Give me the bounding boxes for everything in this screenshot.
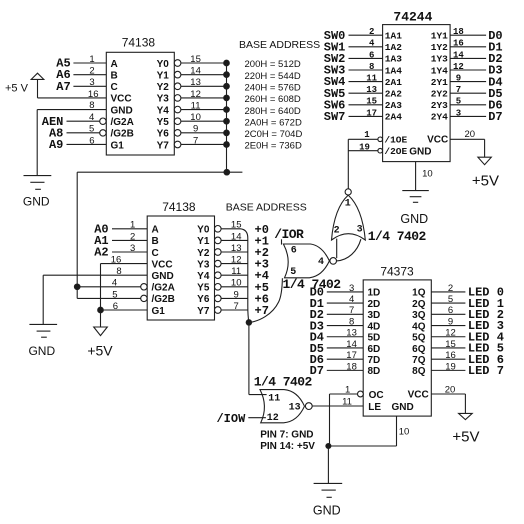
svg-text:12: 12 [267, 413, 279, 424]
svg-text:B: B [111, 70, 118, 81]
svg-text:11: 11 [268, 393, 280, 404]
svg-text:+5V: +5V [452, 428, 479, 445]
wire A0 to U2 pin 1 [94, 220, 147, 237]
svg-text:C: C [152, 248, 159, 259]
svg-text:3Q: 3Q [412, 310, 426, 321]
ground symbol GND (U1) [23, 176, 51, 209]
svg-text:3: 3 [130, 243, 135, 254]
svg-text:3: 3 [357, 225, 363, 236]
wire D7 to U4 pin 18 [310, 361, 364, 378]
svg-text:14: 14 [190, 66, 201, 77]
svg-text:6: 6 [448, 305, 453, 316]
wire select bus to U2 enables horizontal [77, 171, 242, 173]
svg-text:A: A [152, 225, 159, 236]
svg-text:8Q: 8Q [412, 366, 426, 377]
svg-text:16: 16 [111, 255, 122, 266]
wire A6 to U1 pin 2 [56, 66, 106, 83]
svg-text:2: 2 [130, 231, 135, 242]
IC U1 74138 address decoder (high) body [106, 36, 174, 156]
svg-text:13: 13 [190, 77, 201, 88]
wire U1 output Y6 pin 9 to select bus [174, 124, 229, 136]
wire D2 to U4 pin 7 [310, 305, 364, 322]
wire /IOW to U5C pin 12 [216, 412, 265, 426]
svg-text:10: 10 [231, 278, 242, 289]
svg-text:D7: D7 [310, 364, 324, 378]
wire U3 pin 5 to D6 [450, 97, 503, 113]
label PIN 14: +5V [260, 441, 315, 452]
svg-text:GND: GND [400, 212, 428, 226]
svg-text:11: 11 [366, 74, 377, 84]
svg-text:11: 11 [342, 396, 352, 407]
power +5V arrow to U4 pin 20 VCC [431, 384, 479, 445]
wire U1 output Y7 pin 7 to select bus [174, 135, 229, 147]
svg-text:74373: 74373 [380, 264, 414, 278]
svg-text:13: 13 [366, 85, 377, 95]
wire U2 output Y7 pin 7 (+7 select) [215, 301, 249, 313]
svg-text:13: 13 [289, 403, 301, 414]
svg-text:2: 2 [89, 66, 94, 77]
svg-text:GND: GND [23, 195, 50, 209]
svg-text:9: 9 [193, 124, 198, 135]
label pin 11 LE [342, 396, 352, 407]
wire A5 to U1 pin 1 [56, 54, 106, 71]
svg-text:Y0: Y0 [157, 59, 170, 70]
wire U3 pin 16 to D1 [450, 39, 503, 55]
svg-text:BASE ADDRESS: BASE ADDRESS [239, 39, 320, 51]
svg-text:GND: GND [313, 503, 341, 517]
svg-text:8D: 8D [368, 366, 381, 377]
wire U4 pin 6 to LED 2 [431, 305, 504, 322]
wire SW4 to U3 pin 11 [324, 74, 383, 90]
svg-text:/G2A: /G2A [152, 283, 175, 294]
svg-text:/1OE: /1OE [384, 135, 407, 146]
svg-text:280H = 640D: 280H = 640D [245, 106, 301, 117]
label address 260H = 608D [245, 94, 301, 105]
wire U1 output Y5 pin 10 to select bus [174, 112, 229, 124]
svg-text:9: 9 [456, 74, 461, 84]
gate U5C 1/4 7402 NOR /IOW latch enable pins 11 12 output 13 [260, 390, 312, 424]
ground symbol GND (U2 pin 8) [28, 266, 147, 358]
svg-text:9: 9 [448, 316, 453, 327]
svg-text:13: 13 [231, 243, 242, 254]
svg-text:10: 10 [399, 426, 410, 437]
label offset +7 [255, 304, 269, 318]
svg-text:GND: GND [111, 105, 133, 116]
wire U3 pin 14 to D2 [450, 50, 503, 66]
svg-text:Y7: Y7 [157, 140, 170, 151]
svg-text:2Q: 2Q [412, 299, 426, 310]
label offset +3 [255, 258, 269, 272]
wire U2 output Y0 pin 15 (+0 select) [215, 220, 242, 232]
svg-text:1: 1 [130, 220, 135, 231]
svg-text:G1: G1 [111, 140, 125, 151]
svg-text:2: 2 [369, 27, 374, 37]
wire SW5 to U3 pin 13 [324, 85, 383, 101]
svg-text:1A4: 1A4 [385, 65, 402, 76]
label 1/4 7402 (U5C) [254, 374, 313, 389]
svg-text:240H = 576D: 240H = 576D [245, 82, 301, 93]
wire U3 pin 1 /1OE enable [348, 130, 382, 142]
svg-text:12: 12 [453, 62, 464, 72]
svg-text:PIN 14: +5V: PIN 14: +5V [260, 441, 315, 452]
wire A7 to U1 pin 3 [56, 77, 106, 94]
gate U5A 1/4 7402 NOR (vertical) pins 2 3 output 1 [332, 189, 366, 240]
power +5V arrow to U2 pin 16 VCC and pin 6 G1 [87, 255, 147, 359]
wire U2 output Y6 pin 9 (+6 select) [215, 289, 249, 301]
wire SW1 to U3 pin 4 [324, 39, 383, 55]
wire D1 to U4 pin 4 [310, 294, 364, 311]
svg-text:6: 6 [291, 246, 297, 257]
wire U1 output Y4 pin 11 to select bus [174, 100, 229, 112]
svg-text:5: 5 [89, 124, 94, 135]
svg-text:74138: 74138 [162, 200, 196, 214]
wire D5 to U4 pin 14 [310, 339, 364, 356]
svg-text:1/4 7402: 1/4 7402 [254, 374, 313, 389]
svg-text:14: 14 [231, 231, 242, 242]
wire SW3 to U3 pin 8 [324, 62, 383, 78]
svg-text:6: 6 [113, 301, 118, 312]
svg-text:1: 1 [364, 130, 370, 140]
svg-text:5: 5 [112, 289, 117, 300]
power +5V arrow to U3 pin 20 VCC [450, 129, 499, 190]
svg-text:+5V: +5V [472, 173, 499, 190]
wire U3 pin 18 to D0 [450, 27, 503, 43]
svg-text:/2OE: /2OE [384, 146, 407, 157]
svg-text:D7: D7 [488, 110, 502, 124]
svg-text:1Q: 1Q [412, 288, 426, 299]
svg-text:4: 4 [89, 112, 94, 123]
svg-text:Y5: Y5 [157, 117, 170, 128]
wire U1 output Y1 pin 14 to select bus [174, 66, 229, 78]
wire U2 output Y2 pin 13 (+2 select) [215, 243, 249, 255]
wire D4 to U4 pin 13 [310, 328, 364, 345]
svg-text:2Y2: 2Y2 [431, 89, 448, 100]
ground symbol GND (U3 pin 10) [400, 162, 432, 226]
wire A1 to U2 pin 2 [94, 231, 147, 248]
svg-text:11: 11 [231, 266, 241, 277]
svg-text:3: 3 [89, 77, 94, 88]
wire SW7 to U3 pin 17 [324, 108, 383, 124]
svg-text:1Y4: 1Y4 [431, 65, 448, 76]
label address 2C0H = 704D [245, 129, 303, 140]
svg-text:2: 2 [448, 283, 453, 294]
svg-text:4Q: 4Q [412, 321, 426, 332]
svg-text:16: 16 [88, 89, 99, 100]
svg-text:1Y3: 1Y3 [431, 54, 448, 65]
svg-text:260H = 608D: 260H = 608D [245, 94, 301, 105]
svg-text:1: 1 [345, 199, 351, 210]
svg-text:15: 15 [366, 97, 377, 107]
svg-text:VCC: VCC [152, 259, 173, 270]
svg-text:200H = 512D: 200H = 512D [245, 59, 301, 70]
svg-text:5D: 5D [368, 333, 381, 344]
svg-text:17: 17 [366, 108, 377, 118]
svg-text:VCC: VCC [111, 94, 132, 105]
svg-text:6: 6 [369, 50, 374, 60]
svg-text:GND: GND [152, 271, 174, 282]
svg-text:10: 10 [190, 112, 201, 123]
svg-text:18: 18 [346, 361, 357, 372]
svg-text:/IOW: /IOW [216, 412, 246, 426]
svg-text:OC: OC [369, 390, 384, 401]
power +5V arrow to U1 pin 16 VCC [5, 73, 106, 100]
label offset +4 [255, 269, 269, 283]
wire U4 pin 9 to LED 3 [431, 316, 504, 333]
wire U3 pin 3 to D7 [450, 108, 503, 124]
wire D6 to U4 pin 17 [310, 350, 364, 367]
svg-text:1: 1 [89, 54, 94, 65]
wire U3 pin 19 /2OE enable [348, 143, 382, 154]
wire U5C output to U4 LE pin 11 [312, 405, 363, 407]
svg-text:6: 6 [89, 135, 94, 146]
svg-text:Y4: Y4 [157, 105, 170, 116]
svg-text:2A1: 2A1 [385, 77, 402, 88]
wire U2 output Y3 pin 12 (+3 select) [215, 255, 249, 267]
IC U3 74244 octal buffer body [383, 9, 451, 161]
svg-text:4: 4 [349, 294, 354, 305]
svg-text:19: 19 [445, 361, 456, 372]
wire U2 output Y1 pin 14 (+1 select) [215, 231, 249, 243]
svg-text:5Q: 5Q [412, 333, 426, 344]
svg-text:9: 9 [234, 289, 239, 300]
wire +0 select curve down to junction node [241, 229, 252, 325]
svg-text:VCC: VCC [427, 135, 448, 146]
svg-text:2Y3: 2Y3 [431, 100, 448, 111]
svg-text:1Y1: 1Y1 [431, 31, 448, 42]
svg-text:2C0H = 704D: 2C0H = 704D [245, 129, 303, 140]
svg-text:2Y4: 2Y4 [431, 112, 448, 123]
svg-text:2E0H = 736D: 2E0H = 736D [245, 141, 302, 152]
svg-text:GND: GND [409, 146, 431, 157]
svg-text:PIN 7: GND: PIN 7: GND [260, 430, 313, 441]
svg-text:Y3: Y3 [157, 94, 170, 105]
svg-text:12: 12 [445, 328, 456, 339]
svg-text:G1: G1 [152, 306, 166, 317]
svg-text:15: 15 [190, 54, 201, 65]
wire select bus to U2 pin 4 /G2A junction [74, 278, 147, 290]
svg-text:4: 4 [112, 278, 117, 289]
wire D0 to U4 pin 3 [310, 283, 364, 300]
wire U3 pin 12 to D3 [450, 62, 503, 78]
wire +0 select node to U5C pin 11 [249, 322, 267, 394]
label offset +5 [255, 281, 269, 295]
wire U5B output to U5A pin 2 [336, 239, 338, 259]
wire U3 pin 9 to D4 [450, 74, 503, 90]
label BASE ADDRESS (upper) [239, 39, 320, 51]
svg-text:15: 15 [231, 220, 242, 231]
svg-text:20: 20 [465, 129, 476, 140]
svg-text:3: 3 [456, 108, 461, 118]
wire SW0 to U3 pin 2 [324, 27, 383, 43]
svg-text:1/4 7402: 1/4 7402 [368, 229, 427, 244]
label address 200H = 512D [245, 59, 301, 70]
svg-text:18: 18 [453, 27, 464, 37]
svg-text:B: B [152, 236, 159, 247]
svg-text:220H = 544D: 220H = 544D [245, 71, 301, 82]
svg-text:14: 14 [453, 50, 464, 60]
wire SW6 to U3 pin 15 [324, 97, 383, 113]
svg-text:LE: LE [368, 402, 381, 413]
svg-text:6D: 6D [368, 344, 381, 355]
svg-text:7Q: 7Q [412, 355, 426, 366]
label offset +6 [255, 292, 269, 306]
wire U1 output Y0 pin 15 to select bus [174, 54, 229, 66]
svg-text:5: 5 [448, 294, 453, 305]
label offset +0 [255, 223, 269, 237]
svg-text:A9: A9 [49, 138, 63, 152]
svg-text:Y4: Y4 [197, 271, 210, 282]
wire U4 pin 15 to LED 5 [431, 339, 504, 356]
svg-text:8: 8 [369, 62, 374, 72]
svg-text:A2: A2 [94, 246, 108, 260]
wire U2 output Y5 pin 10 (+5 select) [215, 278, 249, 290]
svg-text:A: A [111, 59, 118, 70]
svg-text:19: 19 [359, 143, 370, 153]
wire A8 to U1 pin 5 /G2B [49, 124, 106, 141]
wire select bus vertical (U1 outputs joined) [224, 63, 230, 175]
svg-text:8: 8 [116, 266, 121, 277]
svg-text:/IOR: /IOR [274, 227, 304, 242]
svg-text:8: 8 [89, 100, 94, 111]
svg-text:4: 4 [318, 257, 324, 268]
label address 240H = 576D [245, 82, 301, 93]
svg-text:A7: A7 [56, 80, 70, 94]
svg-text:17: 17 [346, 350, 357, 361]
label 1/4 7402 (U5B) [283, 277, 342, 292]
wire U2 output Y4 pin 11 (+4 select) [215, 266, 249, 278]
svg-text:SW7: SW7 [324, 110, 346, 124]
svg-text:Y6: Y6 [157, 129, 170, 140]
wire A9 to U1 pin 6 G1 [49, 135, 106, 152]
svg-text:2Y1: 2Y1 [431, 77, 448, 88]
wire U4 pin 16 to LED 6 [431, 350, 504, 367]
label address 2E0H = 736D [245, 141, 302, 152]
svg-text:/G2B: /G2B [111, 129, 134, 140]
svg-text:VCC: VCC [408, 389, 429, 400]
svg-text:5: 5 [456, 97, 461, 107]
svg-text:2A4: 2A4 [385, 112, 402, 123]
wire U3 pin 7 to D5 [450, 85, 503, 101]
svg-text:2A0H = 672D: 2A0H = 672D [245, 117, 302, 128]
label address 220H = 544D [245, 71, 301, 82]
svg-text:Y2: Y2 [197, 248, 210, 259]
wire U4 pin 10 GND junction [326, 416, 409, 448]
svg-text:16: 16 [453, 39, 464, 49]
wire U1 output Y3 pin 12 to select bus [174, 89, 229, 101]
svg-text:8: 8 [349, 316, 354, 327]
svg-text:2A2: 2A2 [385, 89, 402, 100]
ground symbol GND (U4) [313, 446, 342, 517]
svg-text:4: 4 [369, 39, 375, 49]
svg-text:12: 12 [231, 255, 242, 266]
svg-text:1A3: 1A3 [385, 54, 402, 65]
wire U4 pin 1 OC to ground [330, 384, 364, 446]
label BASE ADDRESS (lower) [226, 201, 307, 213]
svg-text:1A2: 1A2 [385, 42, 402, 53]
svg-text:+5 V: +5 V [5, 83, 29, 95]
wire U4 pin 2 to LED 0 [431, 283, 504, 300]
svg-text:12: 12 [190, 89, 201, 100]
svg-text:14: 14 [346, 339, 357, 350]
svg-text:LED 7: LED 7 [468, 364, 504, 378]
svg-text:1A1: 1A1 [385, 31, 402, 42]
svg-text:11: 11 [191, 100, 201, 111]
svg-text:/G2B: /G2B [152, 294, 175, 305]
wire SW2 to U3 pin 6 [324, 50, 383, 66]
svg-text:GND: GND [392, 402, 414, 413]
svg-text:+5V: +5V [87, 342, 113, 358]
wire +0 select node to U5B pin 5 arc [249, 278, 283, 322]
svg-text:15: 15 [445, 339, 456, 350]
svg-text:1Y2: 1Y2 [431, 42, 448, 53]
IC U4 74373 octal latch body [363, 264, 431, 416]
wire U1 output Y2 pin 13 to select bus [174, 77, 229, 89]
wire select bus to U2 pin 5 /G2B [77, 289, 147, 301]
label 1/4 7402 (U5A) [368, 229, 427, 244]
gate U5B 1/4 7402 NOR /IOR select pins 5 6 output 4 [283, 244, 336, 278]
svg-text:Y1: Y1 [157, 70, 170, 81]
svg-text:Y6: Y6 [197, 294, 210, 305]
svg-text:Y7: Y7 [197, 306, 210, 317]
svg-text:74138: 74138 [122, 36, 156, 50]
label PIN 7: GND [260, 430, 313, 441]
label offset +2 [255, 246, 269, 260]
svg-text:2D: 2D [368, 299, 381, 310]
svg-text:7: 7 [234, 301, 239, 312]
svg-text:1D: 1D [368, 288, 381, 299]
svg-text:Y1: Y1 [197, 236, 210, 247]
svg-text:7: 7 [456, 85, 461, 95]
wire D3 to U4 pin 8 [310, 316, 364, 333]
svg-text:Y0: Y0 [197, 225, 210, 236]
IC U2 74138 address decoder (low) body [147, 200, 214, 320]
svg-text:7: 7 [349, 305, 354, 316]
svg-text:GND: GND [28, 344, 55, 358]
svg-text:Y3: Y3 [197, 259, 210, 270]
label address 2A0H = 672D [245, 117, 302, 128]
wire U4 pin 19 to LED 7 [431, 361, 504, 378]
svg-text:2A3: 2A3 [385, 100, 402, 111]
wire enable vertical to NOR gate output [347, 139, 349, 188]
svg-text:74244: 74244 [393, 9, 432, 24]
wire U1 pin 8 GND lead [37, 100, 106, 176]
svg-text:6Q: 6Q [412, 344, 426, 355]
svg-text:3D: 3D [368, 310, 381, 321]
svg-text:BASE ADDRESS: BASE ADDRESS [226, 201, 307, 213]
svg-text:7: 7 [193, 135, 198, 146]
svg-text:Y2: Y2 [157, 82, 170, 93]
svg-text:16: 16 [445, 350, 456, 361]
wire vertical down to U2 /G2A /G2B [76, 172, 78, 298]
wire AEN to U1 pin 4 /G2A [42, 112, 106, 129]
label address 280H = 640D [245, 106, 301, 117]
svg-text:10: 10 [422, 168, 433, 179]
wire U4 pin 12 to LED 4 [431, 328, 504, 345]
svg-text:2: 2 [334, 225, 340, 236]
svg-text:1: 1 [345, 384, 350, 395]
wire U5B output to U5A pin 3 arc [337, 239, 361, 261]
wire /IOR to U5B pin 6 [274, 227, 304, 245]
svg-text:/G2A: /G2A [111, 117, 134, 128]
wire A2 to U2 pin 3 [94, 243, 147, 260]
svg-text:20: 20 [445, 384, 456, 395]
label offset +1 [255, 234, 269, 248]
svg-text:3: 3 [349, 283, 354, 294]
svg-text:7D: 7D [368, 355, 381, 366]
svg-text:Y5: Y5 [197, 283, 210, 294]
svg-text:C: C [111, 82, 118, 93]
svg-text:13: 13 [346, 328, 357, 339]
